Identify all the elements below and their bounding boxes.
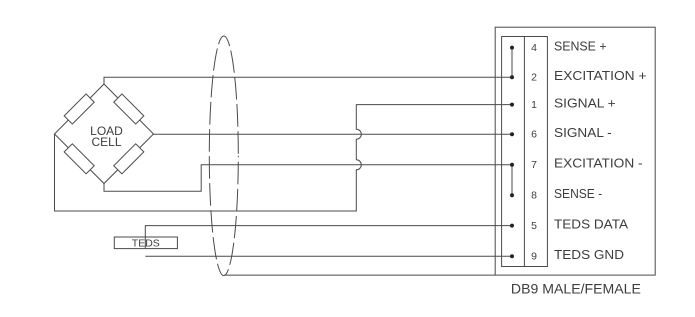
TEDS box xyxy=(114,237,177,249)
svg-text:7: 7 xyxy=(531,159,537,171)
cable shield ellipse xyxy=(209,36,238,276)
pin 9 dot xyxy=(510,254,514,258)
svg-text:SIGNAL -: SIGNAL - xyxy=(554,125,612,140)
svg-text:TEDS: TEDS xyxy=(132,238,160,250)
jumper wire pin7 to pin8 xyxy=(511,165,513,195)
bridge arm resistor upper-left xyxy=(64,94,94,124)
svg-text:SIGNAL +: SIGNAL + xyxy=(554,95,616,110)
wire signal- : bridge right vertex to pin 6 xyxy=(154,133,513,135)
svg-text:EXCITATION -: EXCITATION - xyxy=(554,156,643,171)
pin 2 dot xyxy=(510,75,514,79)
load cell bridge diamond xyxy=(55,84,154,184)
svg-text:2: 2 xyxy=(531,71,537,83)
svg-text:4: 4 xyxy=(531,42,537,54)
load cell label xyxy=(90,124,123,149)
bridge arm resistor lower-right xyxy=(114,144,144,174)
bridge arm resistor upper-right xyxy=(114,94,144,124)
svg-text:1: 1 xyxy=(531,99,537,111)
svg-text:TEDS GND: TEDS GND xyxy=(554,247,624,262)
svg-text:5: 5 xyxy=(531,220,537,232)
jumper wire pin4 to pin2 xyxy=(511,48,513,78)
svg-text:8: 8 xyxy=(531,189,537,201)
svg-text:6: 6 xyxy=(531,128,537,140)
wire shield : ellipse bottom to connector shell xyxy=(224,274,495,276)
svg-text:9: 9 xyxy=(531,250,537,262)
svg-text:EXCITATION +: EXCITATION + xyxy=(554,68,647,83)
bridge arm resistor lower-left xyxy=(64,144,94,174)
connector outer shell rectangle xyxy=(495,27,655,275)
svg-text:CELL: CELL xyxy=(91,135,121,149)
svg-text:SENSE +: SENSE + xyxy=(554,38,607,53)
pin 8 dot xyxy=(510,193,514,197)
wire teds data : TEDS box top stub to pin 5 xyxy=(145,226,512,249)
wire excitation- : bridge bottom vertex to pin 7 xyxy=(104,165,512,191)
pin 7 dot xyxy=(510,163,514,167)
wire signal+ : bridge left vertex down, along bottom, up with hops, to pin 1 xyxy=(55,105,513,211)
wire teds gnd : TEDS box bottom stub to pin 9 xyxy=(145,255,512,257)
svg-text:SENSE -: SENSE - xyxy=(554,186,602,201)
pin 5 dot xyxy=(510,224,514,228)
pin 4 dot xyxy=(510,46,514,50)
signal labels xyxy=(554,38,647,262)
svg-text:DB9 MALE/FEMALE: DB9 MALE/FEMALE xyxy=(511,281,641,297)
svg-text:TEDS DATA: TEDS DATA xyxy=(554,216,628,231)
pin 6 dot xyxy=(510,132,514,136)
pin numbers xyxy=(531,42,537,263)
divider line between pin dots and pin numbers xyxy=(523,37,525,267)
wire excitation+ : bridge top vertex to pin 2 xyxy=(104,77,512,84)
connector inner pin-field rectangle xyxy=(502,37,548,267)
pin 1 dot xyxy=(510,103,514,107)
